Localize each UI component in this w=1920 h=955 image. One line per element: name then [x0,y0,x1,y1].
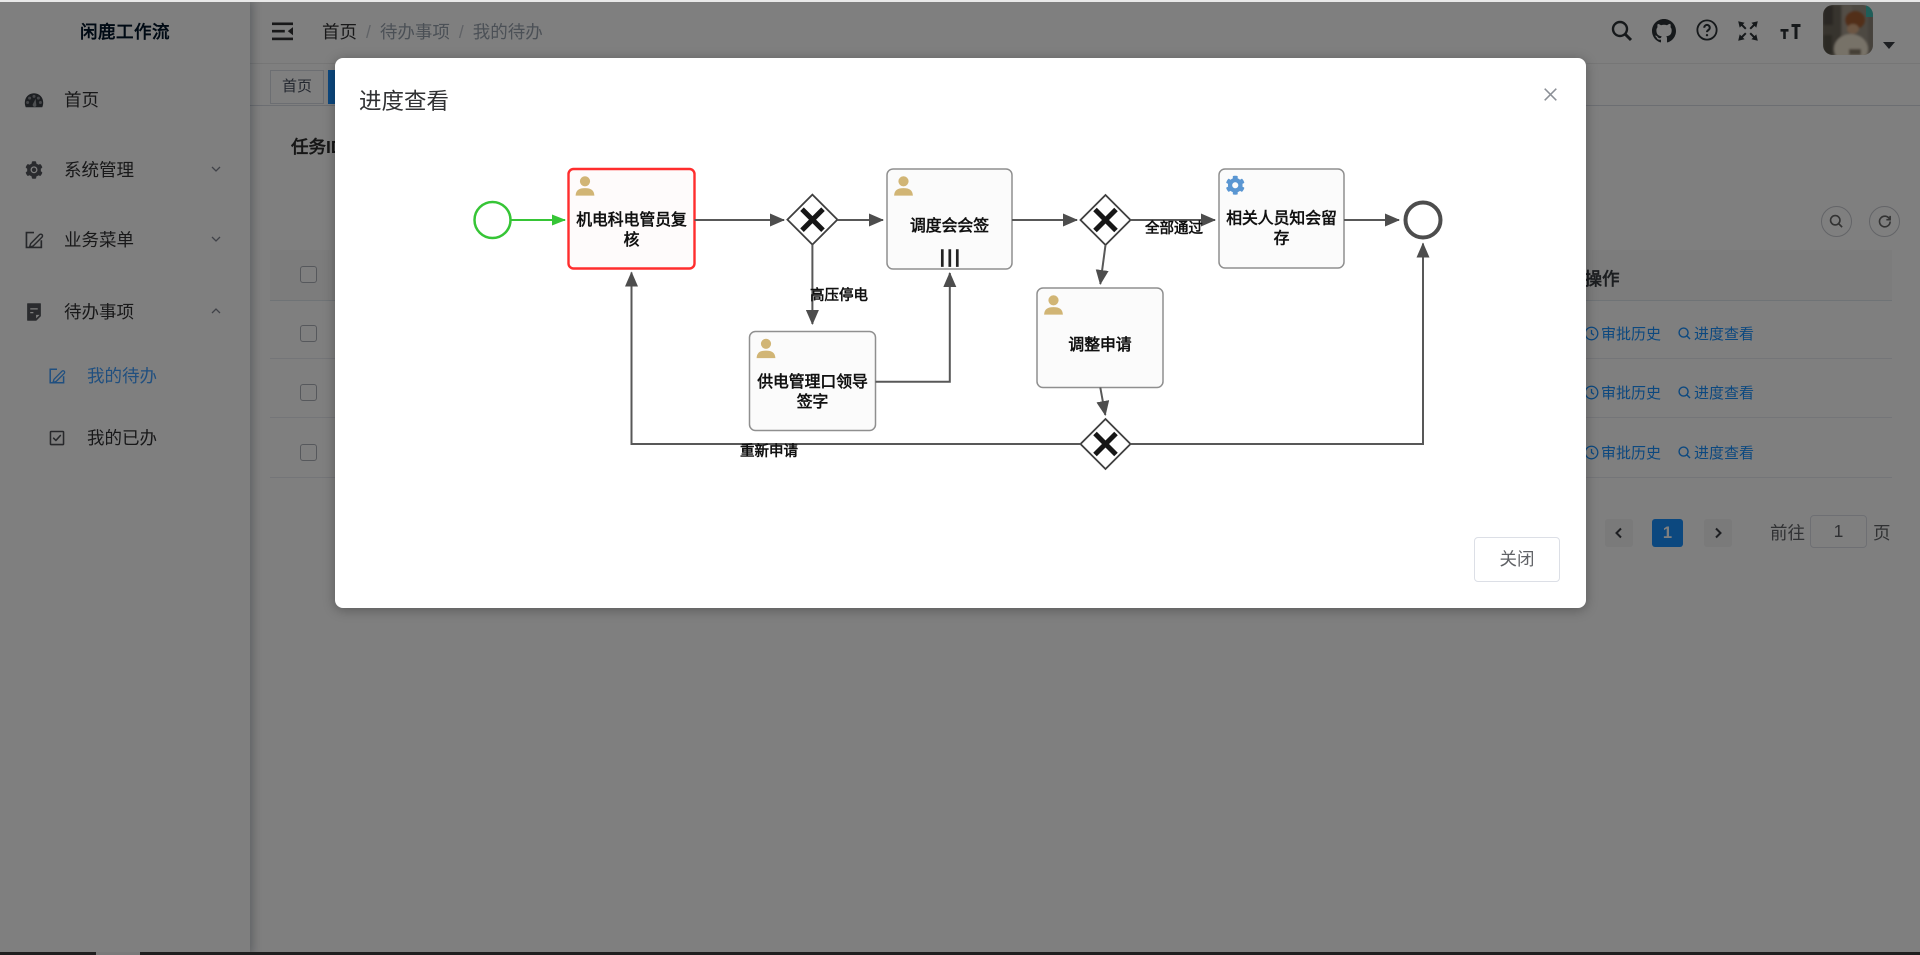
user task 机电科电管员复核 (current, red) [569,169,695,269]
flow task5->gateway3 [1100,388,1105,416]
flow gateway1->task3, label 高压停电 [811,245,813,324]
gateway G1 (exclusive) [787,195,837,245]
pagination [1605,519,1633,547]
fullscreen icon [1736,19,1760,43]
avatar [1823,5,1873,55]
flow gateway1->task2 [837,219,883,221]
svg-text:存: 存 [1274,229,1290,248]
font size icon [1778,19,1803,43]
svg-text:重新申请: 重新申请 [740,442,798,460]
search icon [1610,19,1634,43]
gateway G2 (exclusive) [1081,195,1131,245]
svg-text:高压停电: 高压停电 [810,286,868,304]
flow gateway3->task1 (重新申请) [632,273,1081,445]
flow start->task1 (green) [512,219,566,221]
svg-text:相关人员知会留: 相关人员知会留 [1226,209,1337,228]
flow task1->gateway1 [695,219,785,221]
help icon [1696,19,1718,41]
end event [1406,203,1441,238]
svg-text:机电科电管员复: 机电科电管员复 [576,210,687,229]
svg-text:调整申请: 调整申请 [1068,335,1131,354]
toolbar circle buttons [1821,206,1852,237]
user task 供电管理口领导签字 [750,332,876,431]
flow gateway2->task4, label 全部通过 [1131,219,1216,221]
gateway G3 (exclusive) [1081,419,1131,469]
svg-text:核: 核 [624,230,640,249]
svg-text:签字: 签字 [796,392,829,411]
flow task3->task2 [876,273,950,382]
svg-text:全部通过: 全部通过 [1144,219,1203,237]
flow task4->end [1344,219,1399,221]
flow task2->gateway2 [1012,219,1077,221]
flow gateway2->task5 [1100,245,1105,284]
svg-text:调度会会签: 调度会会签 [910,216,989,235]
user task 调整申请 [1037,288,1163,388]
flow gateway3->end [1131,244,1424,445]
github icon [1652,19,1676,43]
svg-text:供电管理口领导: 供电管理口领导 [756,372,868,391]
user task 调度会会签 (multi-instance) [887,169,1012,269]
bottom scrollbar strip [0,952,1920,955]
service task 相关人员知会留存 [1219,169,1344,268]
start event [475,202,511,238]
